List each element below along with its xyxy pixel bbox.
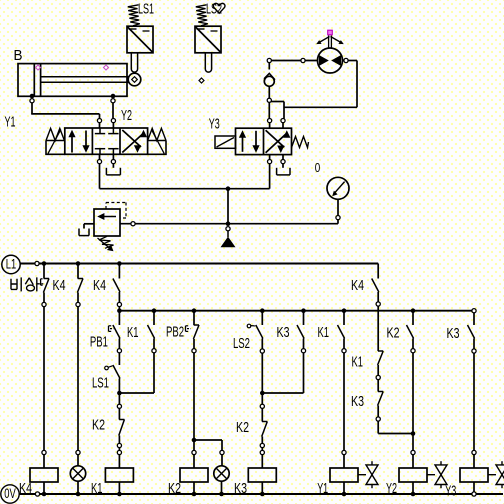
wire to Y3 port — [284, 106, 357, 108]
wire to valve port A — [31, 113, 99, 115]
svg-text:K3: K3 — [447, 325, 460, 342]
hydraulic motor — [318, 48, 343, 73]
NC contact K3 — [378, 391, 383, 393]
wire — [193, 353, 195, 440]
svg-text:LS2: LS2 — [206, 1, 222, 18]
small heart marker above LS2 — [213, 3, 225, 13]
bus line — [119, 310, 472, 312]
wire join — [378, 433, 413, 435]
indicator lamp 1 — [70, 466, 85, 481]
pushbutton PB2 operator — [185, 326, 187, 332]
svg-text:Y2: Y2 — [121, 107, 132, 124]
wire cylinder left port down — [31, 103, 33, 114]
wire — [412, 482, 414, 494]
svg-text:Y2: Y2 — [386, 480, 397, 497]
wire — [303, 353, 305, 393]
relief valve drain to tank — [84, 223, 94, 225]
wire check valve down — [268, 86, 270, 98]
terminal — [472, 492, 476, 496]
roller on piston rod — [128, 73, 141, 86]
junction gauge line — [226, 221, 231, 226]
svg-text:K4: K4 — [19, 480, 32, 497]
wire — [77, 307, 79, 451]
svg-text:K1: K1 — [352, 354, 364, 371]
bus end node — [472, 309, 476, 313]
wire — [118, 379, 120, 394]
svg-text:L1: L1 — [6, 255, 17, 271]
NO contact LS1 — [113, 365, 120, 379]
NC contact PB2 — [194, 324, 199, 326]
node diamond below LS2 — [199, 78, 204, 83]
wire — [343, 311, 345, 325]
wire — [343, 482, 345, 494]
left solenoid + spring end — [46, 128, 64, 140]
svg-text:K3: K3 — [277, 324, 290, 341]
wire — [261, 448, 263, 451]
spring above LS1 — [128, 5, 140, 26]
svg-text:B: B — [14, 47, 23, 64]
motor shaft — [328, 36, 330, 49]
NC contact emergency — [44, 278, 49, 280]
Y3 left position arrows — [242, 134, 244, 152]
wire — [153, 339, 155, 349]
spring right of Y3 — [292, 137, 309, 148]
wire — [43, 264, 45, 279]
wire — [412, 353, 414, 451]
svg-text:K4: K4 — [93, 277, 106, 294]
wire branch to Y3 — [269, 101, 284, 103]
wire — [193, 440, 195, 450]
Y3 ports — [268, 119, 272, 123]
junction bus — [342, 308, 347, 313]
NO contact K4 — [113, 279, 120, 293]
junction — [76, 261, 81, 266]
check valve — [264, 76, 274, 86]
wire — [153, 353, 155, 393]
wire — [221, 455, 223, 466]
junction bus — [117, 308, 122, 313]
supply terminal L1 — [2, 255, 20, 273]
wire — [377, 406, 379, 417]
supply line — [100, 188, 270, 190]
shaft marker — [328, 30, 333, 35]
tank below main valve — [112, 164, 114, 168]
svg-text:K3: K3 — [351, 393, 364, 410]
NC contact K4 — [78, 278, 83, 280]
wire join — [119, 392, 154, 394]
wire down to source — [227, 189, 229, 224]
valve ports — [97, 119, 101, 123]
junction supply — [226, 186, 231, 191]
valve solenoid Y2 — [399, 468, 427, 482]
pressure gauge — [327, 177, 349, 199]
valve symbol Y2 — [427, 474, 435, 476]
NO contact LS2 — [256, 325, 263, 339]
cylinder port node left — [30, 94, 35, 99]
marker diamond 1 — [36, 65, 41, 70]
pressure source — [221, 237, 236, 248]
junction — [342, 492, 347, 497]
rail 0V — [19, 493, 503, 495]
wire — [118, 393, 120, 404]
Y3 right position crossed arrows — [266, 133, 288, 153]
svg-text:K2: K2 — [92, 417, 105, 434]
wire — [118, 436, 120, 444]
wire — [43, 482, 45, 494]
junction — [76, 492, 81, 497]
wire — [193, 455, 195, 468]
wire — [261, 393, 263, 404]
wire — [377, 292, 379, 302]
wire motor right — [343, 60, 358, 62]
rail L1 — [20, 263, 378, 265]
junction — [192, 438, 197, 443]
wire into check valve — [268, 63, 270, 70]
wire — [261, 455, 263, 468]
wire — [118, 311, 120, 325]
wire — [343, 455, 345, 468]
svg-text:K1: K1 — [91, 480, 103, 497]
wire — [221, 481, 223, 494]
wire — [193, 311, 195, 325]
wire — [193, 482, 195, 494]
wire — [261, 353, 263, 393]
wire valve P down — [99, 164, 101, 189]
svg-text:LS1: LS1 — [138, 1, 154, 18]
wire — [43, 293, 45, 303]
pushbutton PB1 operator — [108, 326, 110, 332]
rotation arrows — [319, 37, 330, 43]
NO contact K3 — [468, 325, 475, 339]
wire — [118, 448, 120, 451]
NO contact PB1 — [113, 325, 120, 339]
relay coil K1 — [105, 468, 133, 482]
svg-text:K2: K2 — [168, 480, 181, 497]
wire — [377, 365, 379, 375]
wire — [377, 380, 379, 392]
wire — [118, 408, 120, 419]
valve left position arrows — [71, 134, 73, 153]
wire — [118, 455, 120, 468]
wire — [412, 311, 414, 325]
junction — [117, 261, 122, 266]
directional valve Y1/Y2 body — [65, 128, 148, 154]
wire — [473, 313, 475, 325]
junction — [117, 391, 122, 396]
valve symbol Y3 — [488, 474, 496, 476]
wire join — [262, 392, 303, 394]
NC contact K1 — [378, 350, 383, 352]
wire — [473, 482, 475, 492]
junction — [117, 492, 122, 497]
svg-text:K2: K2 — [387, 325, 400, 342]
wire up to Y3 P — [269, 164, 271, 189]
wire — [412, 339, 414, 349]
tank below Y3 — [282, 164, 284, 168]
NO contact K1 — [338, 325, 345, 339]
valve symbol Y1 — [358, 474, 366, 476]
wire — [118, 292, 120, 303]
junction — [42, 492, 47, 497]
svg-text:K1: K1 — [127, 324, 139, 341]
wire cylinder right port to valve B — [112, 103, 114, 119]
relief input line — [120, 223, 338, 225]
marker diamond 2 — [104, 65, 109, 70]
junction bus — [192, 308, 197, 313]
wire — [261, 437, 263, 444]
NO contact K3 — [297, 325, 304, 339]
junction bus — [411, 308, 416, 313]
relay coil K2 — [180, 468, 208, 482]
svg-text:Y3: Y3 — [209, 116, 220, 133]
wire — [261, 339, 263, 349]
NO contact K2 — [407, 325, 414, 339]
relief pilot dashed line — [105, 203, 107, 210]
wire — [193, 339, 195, 349]
wire — [261, 311, 263, 325]
junction — [411, 431, 416, 436]
svg-text:K4: K4 — [351, 277, 364, 294]
relay coil K4 — [30, 468, 58, 482]
limit switch LS2 — [195, 26, 221, 53]
limit switch LS1 operator — [105, 366, 109, 370]
valve Y3 body — [236, 128, 292, 154]
wire — [473, 339, 475, 349]
wire — [153, 311, 155, 325]
wire — [473, 455, 475, 468]
svg-text:0V: 0V — [4, 485, 16, 501]
junction — [260, 492, 265, 497]
limit switch LS1 — [127, 26, 153, 53]
wire check valve to motor — [271, 60, 317, 62]
valve solenoid Y3 — [460, 468, 488, 482]
junction — [260, 391, 265, 396]
wire — [43, 307, 45, 451]
wire to lamp branch — [194, 439, 222, 441]
supply terminal 0V — [1, 485, 19, 503]
wire — [43, 455, 45, 468]
wire — [261, 482, 263, 494]
svg-text:K4: K4 — [53, 277, 66, 294]
svg-text:PB1: PB1 — [90, 334, 108, 351]
node below check valve — [267, 98, 271, 102]
svg-text:Y1: Y1 — [317, 480, 328, 497]
wire — [77, 293, 79, 303]
wire — [377, 421, 379, 433]
wire — [118, 264, 120, 279]
relief adjust arrow — [98, 238, 111, 249]
wire from rail — [377, 264, 379, 279]
svg-text:LS2: LS2 — [233, 335, 250, 352]
wire — [118, 353, 120, 365]
wire — [77, 455, 79, 466]
wire crossing bus — [377, 306, 379, 351]
wire — [343, 339, 345, 349]
limit switch LS2 operator — [247, 324, 251, 328]
wire — [303, 339, 305, 349]
cylinder B — [18, 64, 127, 97]
junction — [411, 492, 416, 497]
wire — [77, 264, 79, 279]
wire — [118, 339, 120, 349]
spring above LS2 — [196, 5, 208, 26]
NC contact K2 — [262, 421, 267, 423]
junction bus — [260, 308, 265, 313]
relief valve spring — [99, 236, 114, 248]
valve right position crossed arrows — [122, 132, 144, 152]
wire down right of motor — [356, 61, 358, 108]
wire down to valve A — [99, 114, 101, 119]
node check valve top — [267, 58, 271, 62]
wire — [261, 408, 263, 421]
junction — [192, 492, 197, 497]
korean text 비상 (emergency) — [11, 277, 40, 291]
wire — [221, 440, 223, 450]
svg-text:K3: K3 — [234, 480, 247, 497]
NC contact K2 — [119, 419, 124, 421]
wire — [343, 353, 345, 451]
wire — [118, 482, 120, 494]
wire — [303, 311, 305, 325]
valve centre position blocked ports — [99, 128, 101, 134]
NO contact K1 — [148, 325, 155, 339]
svg-text:K2: K2 — [236, 419, 249, 436]
junction — [42, 261, 47, 266]
svg-text:Y3: Y3 — [445, 483, 456, 500]
cylinder port node right — [111, 94, 116, 99]
wire — [118, 307, 120, 311]
relay coil K3 — [248, 468, 276, 482]
pressure relief valve — [94, 209, 120, 236]
valve solenoid Y1 — [330, 468, 358, 482]
right solenoid + spring end — [148, 128, 166, 140]
svg-text:LS1: LS1 — [92, 375, 109, 392]
emergency button operator — [40, 279, 42, 285]
svg-text:Y1: Y1 — [5, 113, 16, 130]
solenoid Y3 — [215, 136, 236, 148]
svg-text:0: 0 — [315, 160, 321, 175]
junction — [219, 492, 224, 497]
wire — [412, 455, 414, 468]
svg-text:K1: K1 — [318, 324, 330, 341]
indicator lamp 2 — [214, 466, 229, 481]
junction bus — [152, 308, 157, 313]
wire — [77, 481, 79, 494]
NO contact K4 — [372, 279, 379, 293]
wire — [473, 353, 475, 450]
svg-text:PB2: PB2 — [166, 324, 184, 341]
junction bus — [301, 308, 306, 313]
wire to Y3 port A — [268, 102, 270, 118]
